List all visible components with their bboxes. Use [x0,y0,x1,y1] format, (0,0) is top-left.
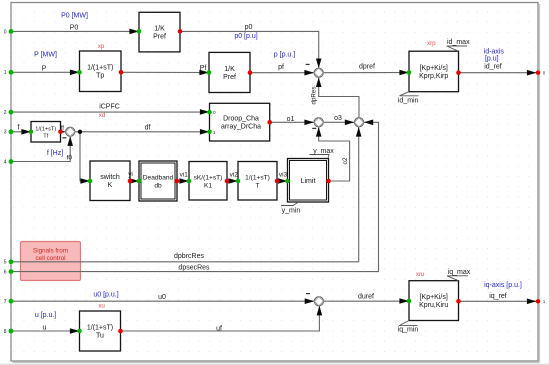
label iq-axis [p.u.] [484,282,522,289]
wire iCPFC (input 2 to Droop in0) [11,109,210,115]
label u [p.u.] [35,312,56,319]
svg-text:iCPFC: iCPFC [99,104,120,111]
label P [MW] [34,52,57,59]
wire id_ref (Kprp to output 0) [459,70,539,76]
wire f0 (input 4 up into sum C bottom) [11,136,73,161]
Limit in/out dots [285,179,331,184]
svg-text:P: P [42,65,47,72]
input port 0 [4,29,14,35]
label uf [216,326,222,333]
wire p0 (Pref1 to sum T top, elbow) [180,31,322,68]
svg-text:xu: xu [98,302,105,309]
wire o2 (Limit output feedback up to sum A bottom) [316,127,350,181]
Pref1 in/out dots [137,29,183,34]
svg-text:Kpru,Kiru: Kpru,Kiru [419,302,448,309]
wire vi3 (T to Limit) [277,178,288,184]
svg-text:Deadband: Deadband [143,174,174,181]
switch in/out dots [88,179,133,184]
wire to switch (junction down and right) [80,132,90,184]
svg-text:id-axis: id-axis [484,48,505,55]
svg-text:1/K: 1/K [154,25,165,32]
input port 8 [4,329,14,335]
svg-text:Tu: Tu [96,332,104,339]
wire df (sum C to Droop in1, junction at 80) [75,129,210,135]
svg-text:y_min: y_min [282,208,301,215]
summator C (ff - f0) [62,127,74,138]
wire P (input 1 to Tp) [11,70,80,76]
label p [p.u.] [274,52,295,59]
svg-text:7: 7 [4,299,7,305]
Pref2 in/out dots [207,70,253,75]
label iq_min with callout [398,321,419,334]
svg-text:Signals from: Signals from [33,248,68,255]
svg-text:vi3: vi3 [279,172,288,179]
block Tf (1/(1+sT) Tf) [31,122,61,143]
block Limit (double border) [288,159,329,203]
wire yi (switch to Deadband) [129,178,139,184]
label P0 [70,25,79,32]
block Tp (1/(1+sT) Tp) [80,51,122,92]
svg-text:Pref: Pref [223,74,236,81]
svg-text:f0: f0 [67,155,73,162]
label yi [128,171,133,178]
label p0 [p.u] [234,33,257,40]
svg-text:f: f [18,124,20,131]
label dpsecRes [178,265,210,272]
block Pref2 (1/K Pref) [209,52,250,92]
summator B (o3 + dpbrcRes + dpsecRes -> dpRes) [354,118,363,127]
label dpRes (rotated) [310,87,317,105]
input port 5 [4,259,14,265]
block Droop_Cha array_DrCha [210,103,270,141]
summator T (p0 - pf + dpRes -> dpref) [306,64,324,77]
svg-text:Tp: Tp [96,73,104,80]
input port 7 [4,299,14,305]
label id_max with callout [447,39,470,51]
label id_ref [484,63,502,70]
wire dpRes (sum B up to sum T bottom) [316,77,359,117]
block Tu (1/(1+sT) Tu) [80,311,121,351]
label u0 [p.u.] [93,291,118,298]
svg-text:1/(1+sT): 1/(1+sT) [245,174,270,181]
block K1 (sK/(1+sT) K1) [189,162,227,201]
svg-text:3: 3 [4,130,7,136]
label u0 [158,294,166,301]
label p0 [245,24,253,31]
label xp [98,43,105,50]
K1 in/out dots [187,179,230,184]
svg-text:p [p.u.]: p [p.u.] [274,52,295,59]
svg-text:o3: o3 [334,115,342,122]
svg-text:yi: yi [128,171,133,178]
wire u (input 8 to Tu) [11,328,80,334]
svg-text:iq-axis [p.u.]: iq-axis [p.u.] [484,282,522,289]
wire vi2 (K1 to T) [227,178,238,184]
input port 4 [4,159,14,165]
svg-text:u: u [43,325,47,332]
svg-text:6: 6 [4,270,7,276]
svg-text:dpRes: dpRes [310,87,317,105]
label vi3 [279,172,288,179]
label vi1 [180,172,189,179]
Kprp in/out dots [407,70,461,75]
input port 3 [4,129,14,135]
svg-text:1/(1+sT): 1/(1+sT) [87,324,113,331]
label id-axis [p.u] [484,48,505,62]
svg-text:u0: u0 [158,294,166,301]
svg-text:xru: xru [416,271,425,278]
svg-text:o1: o1 [287,116,295,123]
svg-text:5: 5 [4,260,7,266]
svg-text:K: K [108,182,113,189]
label iq_max with callout [447,269,471,281]
label xru [416,271,425,278]
input port 2 [4,110,14,116]
block Deadband db (double border) [139,161,177,201]
label P [42,65,47,72]
label o2 (rotated) [342,157,349,164]
svg-text:Kprp,Kirp: Kprp,Kirp [419,73,448,80]
summator D (-u0 + uf -> duref) [306,294,324,306]
block T (1/(1+sT) T) [238,162,277,201]
label o1 [287,116,295,123]
wire dpsecRes (input 6 to sum B right side) [11,120,379,272]
label duref [358,294,374,301]
svg-text:P [MW]: P [MW] [34,52,57,59]
Droop in/out dots [207,110,272,134]
svg-text:id_min: id_min [398,98,419,105]
label pf [278,64,284,71]
wire vi1 (Deadband to K1) [177,178,189,184]
label u [43,325,47,332]
label iCPFC [99,104,120,111]
wire o3 (sum A to sum B) [323,120,354,126]
svg-text:array_DrCha: array_DrCha [221,123,261,130]
svg-text:db: db [154,182,162,189]
wire ff (Tf to sum C) [56,129,66,135]
block Kpru ([Kp+Ki/s] Kpru,Kiru) [409,281,459,321]
block Pref1 (1/K Pref) [139,12,180,52]
svg-text:duref: duref [358,294,374,301]
svg-text:uf: uf [216,326,222,333]
signal box (Signals from cell control) [21,242,81,281]
block switch K [90,161,130,201]
svg-text:dpref: dpref [359,63,375,70]
svg-text:Pref: Pref [153,33,166,40]
svg-text:o2: o2 [342,157,349,164]
svg-text:P0: P0 [70,25,79,32]
svg-text:1/K: 1/K [224,66,235,73]
svg-text:0: 0 [213,110,216,115]
Tu in/out dots [77,329,123,334]
label df [145,124,151,131]
label y_max with callout [310,148,335,159]
block Kprp ([Kp+Ki/s] Kprp,Kirp) [409,51,459,91]
label xd [99,112,106,119]
svg-text:ff: ff [61,126,65,132]
svg-text:df: df [145,124,151,131]
wire duref (sum D to Kpru) [324,298,409,304]
svg-text:[Kp+Ki/s]: [Kp+Ki/s] [420,65,448,72]
svg-text:p0 [p.u]: p0 [p.u] [234,33,257,40]
svg-text:f [Hz]: f [Hz] [47,150,63,157]
label id_min with callout [398,92,419,105]
svg-text:id_ref: id_ref [484,63,502,70]
svg-text:8: 8 [4,329,7,335]
input port 6 [4,269,14,275]
svg-text:0: 0 [4,29,7,35]
wire o1 (Droop to sum A) [270,120,314,126]
label xu [98,302,105,309]
svg-text:y_max: y_max [313,148,334,155]
Kpru in/out dots [407,299,461,304]
svg-text:u [p.u.]: u [p.u.] [35,312,56,319]
label f [Hz] [47,150,63,157]
svg-text:u0 [p.u.]: u0 [p.u.] [93,291,118,298]
svg-text:vi2: vi2 [230,172,239,179]
svg-text:cell control: cell control [35,255,65,262]
svg-text:p0: p0 [245,24,253,31]
svg-text:Pf: Pf [200,65,207,72]
output port 0 [536,70,546,75]
wire pf (Pref2 to sum T) [250,70,314,76]
svg-text:iq_max: iq_max [448,269,471,276]
svg-text:1/(1+sT): 1/(1+sT) [87,65,113,72]
svg-text:[p.u]: [p.u] [485,55,499,62]
svg-text:dpbrcRes: dpbrcRes [174,253,204,260]
Tp in/out dots [77,70,123,75]
label iq_ref [489,293,507,300]
svg-text:Droop_Cha: Droop_Cha [223,115,259,122]
label dpref [359,63,375,70]
wire dpref (sum T to Kprp) [323,70,409,76]
svg-text:xd: xd [99,112,106,119]
svg-text:Tf: Tf [43,133,48,139]
svg-text:1/(1+sT): 1/(1+sT) [35,127,56,133]
wire u0 (input 7 to sum D) [11,298,314,304]
svg-text:sK/(1+sT): sK/(1+sT) [194,174,223,181]
label o3 [334,115,342,122]
wire P0 (input 0 to Pref1) [11,29,139,35]
svg-text:1: 1 [4,70,7,76]
svg-text:2: 2 [4,110,7,116]
label Pf [200,65,207,72]
svg-text:id_max: id_max [447,39,470,46]
svg-text:K1: K1 [204,182,212,189]
T in/out dots [236,179,280,184]
input port 1 [4,70,14,76]
label f [18,124,20,131]
svg-text:iq_min: iq_min [398,326,419,333]
svg-text:Limit: Limit [301,178,316,185]
junction df [78,130,82,134]
svg-text:pf: pf [278,64,284,71]
svg-text:switch: switch [100,174,120,181]
Tf in/out dots [29,130,63,135]
label y_min with callout [281,202,300,215]
svg-text:vi1: vi1 [180,172,189,179]
label P0 [MW] [61,12,88,19]
svg-text:xrp: xrp [427,40,436,47]
Deadband in/out dots [137,179,180,184]
svg-text:1: 1 [213,130,216,135]
label f0 [67,155,73,162]
wire uf (Tu up into sum D bottom) [121,306,323,331]
label ff [61,126,65,132]
wire dpbrcRes (input 5 to sum B bottom) [11,127,362,262]
svg-text:T: T [255,182,259,189]
label xrp [427,40,436,47]
label vi2 [230,172,239,179]
svg-text:[Kp+Ki/s]: [Kp+Ki/s] [420,294,448,301]
svg-text:iq_ref: iq_ref [489,293,507,300]
svg-text:xp: xp [98,43,105,50]
svg-text:P0 [MW]: P0 [MW] [61,12,88,19]
wire Pf (Tp to Pref2) [121,70,209,76]
label dpbrcRes [174,253,204,260]
wire f (input 3 to Tf) [11,129,31,135]
output port 1 [536,299,546,304]
summator A (o1 - o2 -> o3) [312,118,323,129]
svg-text:dpsecRes: dpsecRes [178,265,210,272]
wire iq_ref (Kpru to output 1) [459,299,539,305]
svg-text:4: 4 [4,159,7,165]
